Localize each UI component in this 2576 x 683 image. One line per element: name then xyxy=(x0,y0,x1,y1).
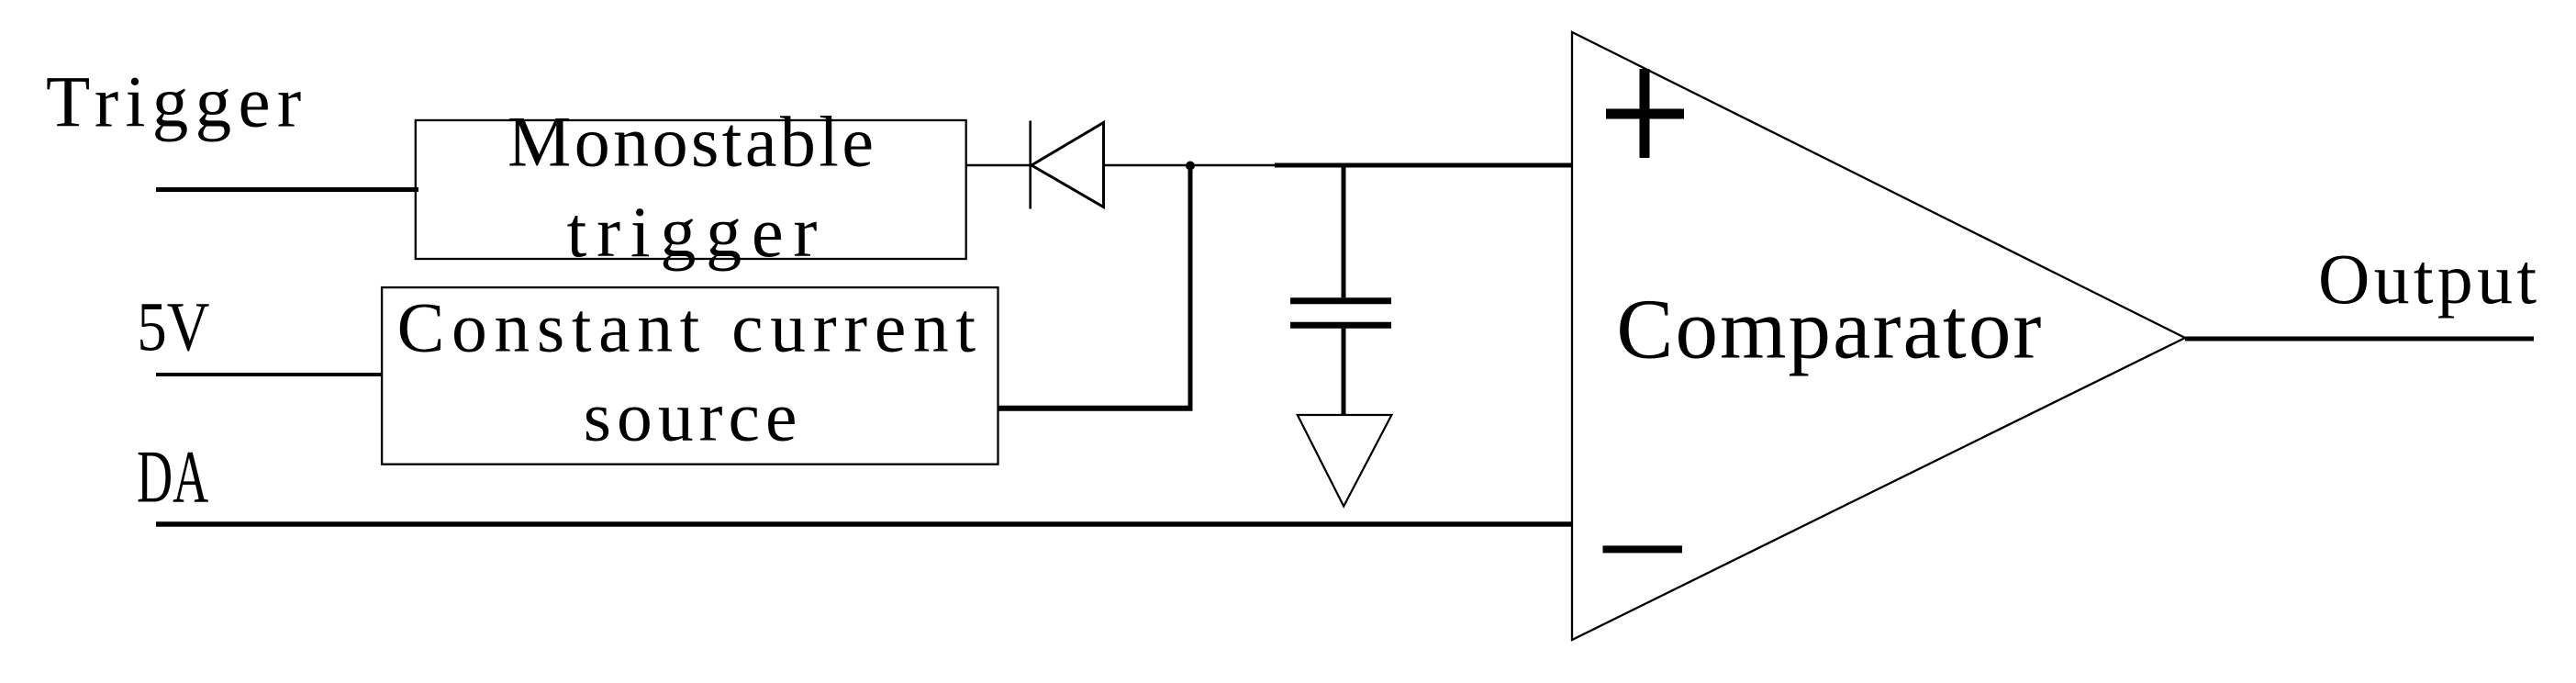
svg-text:5V: 5V xyxy=(137,289,209,366)
svg-text:Trigger: Trigger xyxy=(46,63,301,143)
svg-text:Comparator: Comparator xyxy=(1616,282,2041,376)
svg-text:DA: DA xyxy=(137,435,208,519)
svg-text:source: source xyxy=(584,377,797,456)
svg-text:Output: Output xyxy=(2318,239,2537,319)
svg-text:Constant current: Constant current xyxy=(397,287,976,366)
svg-text:trigger: trigger xyxy=(567,192,818,272)
svg-text:Monostable: Monostable xyxy=(507,102,874,182)
